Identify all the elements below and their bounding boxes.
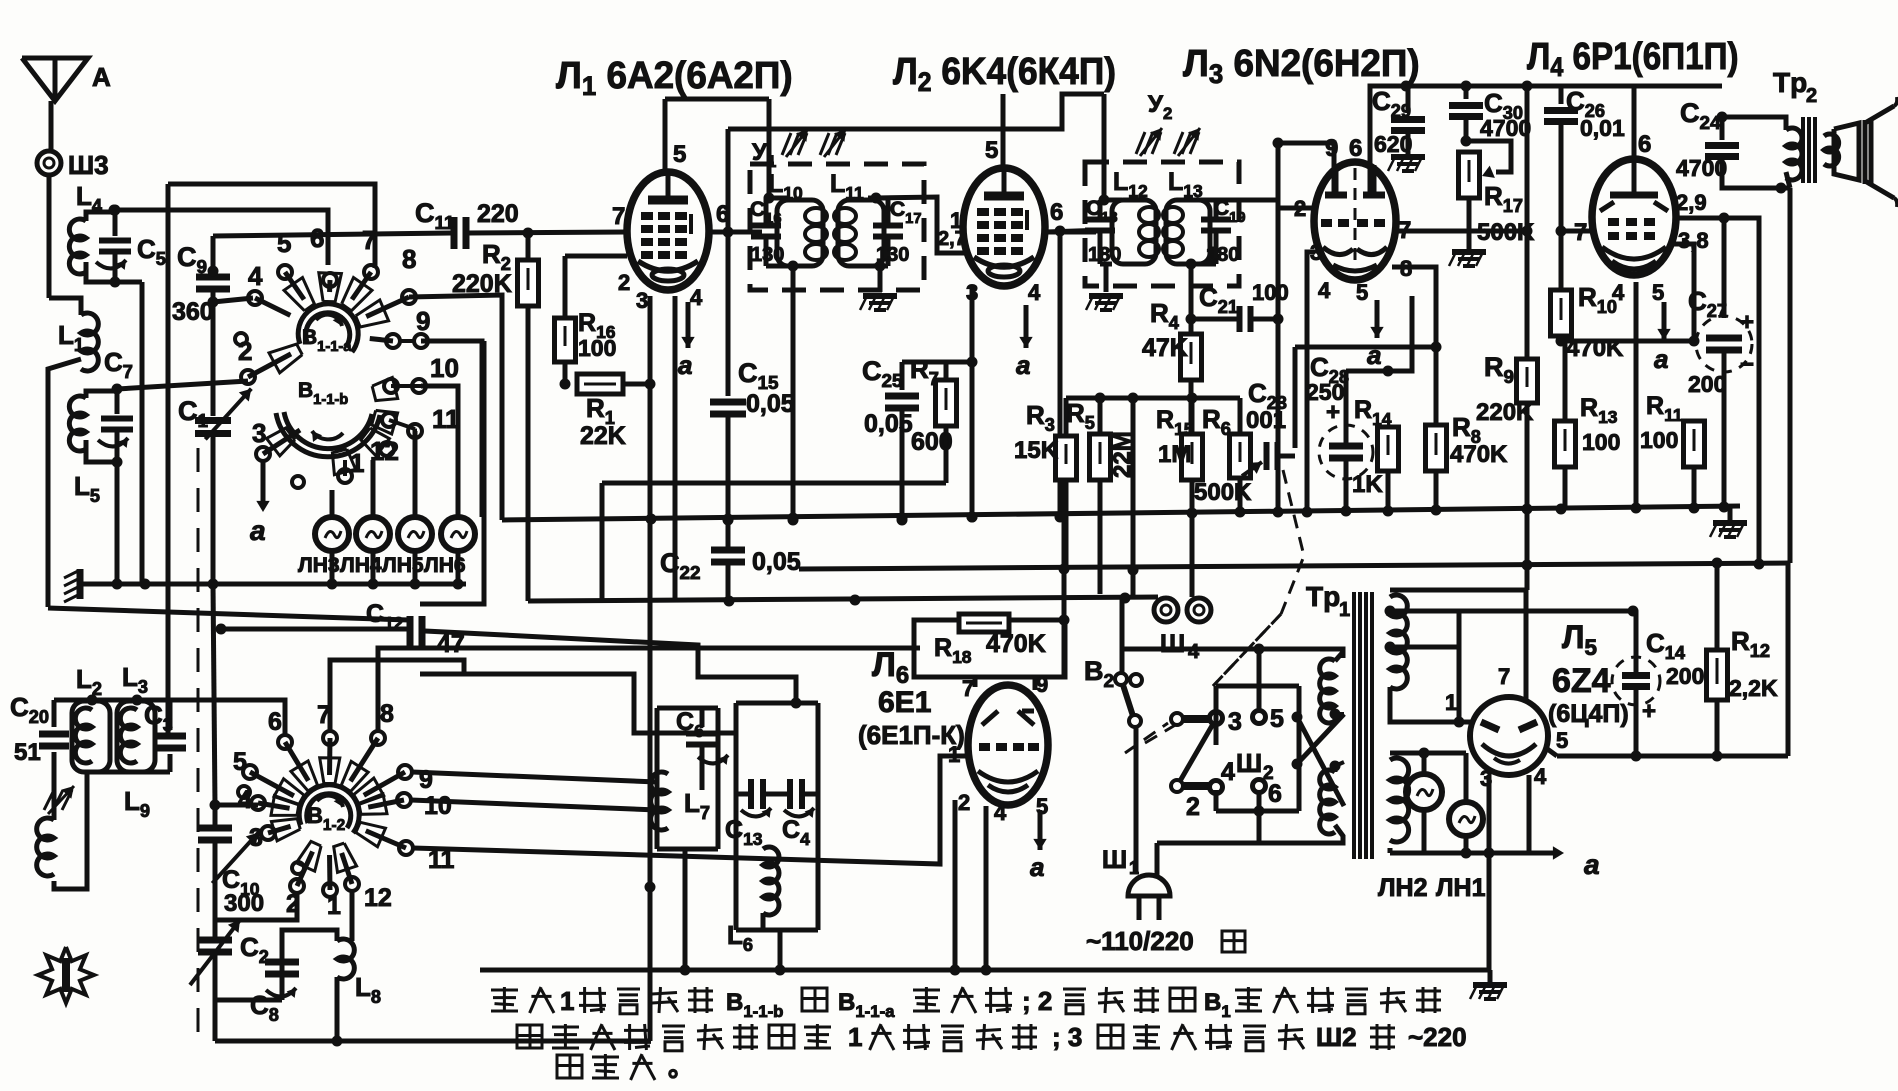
svg-text:470K: 470K: [986, 630, 1046, 658]
svg-text:~110/220: ~110/220: [1086, 926, 1194, 956]
svg-text:4: 4: [1028, 280, 1041, 305]
svg-text:a: a: [1016, 350, 1030, 380]
svg-text:Ш: Ш: [1102, 846, 1127, 874]
svg-text:100: 100: [1640, 427, 1678, 453]
svg-text:Ш: Ш: [1160, 630, 1185, 658]
svg-text:−: −: [1740, 351, 1754, 378]
svg-text:10: 10: [424, 792, 452, 820]
svg-text:8: 8: [402, 244, 416, 274]
svg-text:300: 300: [224, 890, 264, 917]
svg-text:0,05: 0,05: [864, 410, 913, 438]
svg-text:a: a: [678, 350, 692, 380]
svg-text:a: a: [1584, 849, 1600, 880]
svg-text:ЛН2: ЛН2: [1378, 874, 1428, 902]
svg-text:7: 7: [612, 203, 625, 230]
svg-text:+: +: [1740, 309, 1754, 336]
svg-text:47: 47: [437, 630, 465, 658]
svg-text:ЛН1: ЛН1: [1436, 874, 1486, 902]
svg-text:620: 620: [1374, 131, 1412, 157]
svg-text:10: 10: [430, 353, 459, 383]
svg-text:4: 4: [1534, 764, 1547, 789]
svg-text:; 2: ; 2: [1022, 986, 1052, 1016]
svg-text:51: 51: [14, 739, 41, 766]
svg-text:180: 180: [1088, 244, 1121, 266]
svg-text:a: a: [1030, 852, 1044, 882]
svg-text:~220: ~220: [1408, 1022, 1467, 1052]
svg-text:4: 4: [690, 285, 703, 310]
svg-text:1: 1: [950, 208, 962, 233]
svg-text:15K: 15K: [1014, 437, 1059, 464]
svg-text:6: 6: [1268, 780, 1282, 808]
svg-text:22K: 22K: [580, 422, 626, 450]
svg-text:5: 5: [1356, 280, 1368, 305]
svg-text:1: 1: [1445, 690, 1457, 715]
svg-text:9: 9: [416, 306, 430, 336]
svg-text:9: 9: [1036, 672, 1048, 697]
svg-text:470K: 470K: [1450, 441, 1508, 468]
svg-text:2: 2: [1806, 85, 1817, 107]
svg-text:ЛН3: ЛН3: [298, 554, 340, 577]
svg-text:2,2K: 2,2K: [1729, 675, 1778, 701]
svg-text:0,01: 0,01: [1580, 115, 1625, 141]
svg-text:7: 7: [362, 225, 376, 255]
svg-text:a: a: [250, 515, 266, 546]
svg-text:。: 。: [668, 1052, 694, 1082]
svg-text:130: 130: [751, 244, 784, 266]
svg-text:ЛН4: ЛН4: [340, 554, 382, 577]
svg-text:0,05: 0,05: [746, 390, 795, 418]
svg-text:1: 1: [327, 892, 341, 920]
svg-text:5: 5: [1556, 728, 1568, 753]
svg-text:6Z4: 6Z4: [1552, 662, 1611, 700]
svg-text:5: 5: [277, 228, 291, 258]
svg-text:A: A: [92, 62, 111, 92]
svg-text:5: 5: [673, 141, 686, 168]
svg-text:4700: 4700: [1480, 115, 1531, 141]
svg-text:Ш3: Ш3: [68, 150, 109, 180]
svg-text:360: 360: [172, 298, 214, 326]
svg-text:6: 6: [1638, 131, 1651, 158]
svg-text:7: 7: [962, 676, 974, 701]
svg-text:200: 200: [1666, 663, 1704, 689]
svg-text:a: a: [1654, 344, 1668, 374]
svg-text:2: 2: [618, 270, 630, 295]
svg-text:1: 1: [560, 986, 574, 1016]
svg-text:5: 5: [233, 748, 247, 776]
svg-text:47K: 47K: [1142, 334, 1188, 362]
svg-text:5: 5: [1270, 705, 1284, 733]
svg-text:2: 2: [1186, 793, 1200, 821]
svg-text:7: 7: [1574, 219, 1587, 246]
svg-text:; 3: ; 3: [1052, 1022, 1082, 1052]
svg-text:1: 1: [848, 1022, 862, 1052]
svg-text:(6Ц4П): (6Ц4П): [1548, 700, 1629, 728]
svg-text:4: 4: [1318, 278, 1331, 303]
svg-text:100: 100: [1252, 280, 1289, 305]
svg-text:4: 4: [248, 261, 263, 291]
svg-text:4700: 4700: [1676, 155, 1727, 181]
svg-text:6: 6: [1349, 135, 1362, 162]
svg-text:11: 11: [432, 404, 460, 434]
svg-text:250: 250: [1306, 379, 1344, 405]
svg-text:1K: 1K: [1352, 471, 1383, 498]
svg-text:6E1: 6E1: [878, 686, 931, 719]
svg-text:6: 6: [716, 201, 729, 228]
svg-text:Ш: Ш: [1236, 748, 1262, 778]
svg-text:Tp: Tp: [1773, 67, 1807, 98]
svg-text:ЛН5: ЛН5: [382, 554, 424, 577]
svg-text:3: 3: [636, 288, 648, 313]
svg-text:4: 4: [1188, 641, 1200, 663]
svg-text:Tp: Tp: [1306, 581, 1340, 612]
svg-text:8: 8: [380, 700, 394, 728]
svg-text:100: 100: [578, 335, 616, 361]
svg-text:7: 7: [1498, 664, 1510, 689]
svg-text:100: 100: [1582, 429, 1620, 455]
svg-text:2: 2: [958, 790, 970, 815]
svg-text:1: 1: [1129, 858, 1139, 878]
svg-text:1: 1: [948, 742, 960, 767]
svg-text:6: 6: [1050, 199, 1063, 226]
svg-text:4: 4: [1221, 758, 1235, 786]
svg-text:5: 5: [985, 137, 998, 164]
svg-text:1: 1: [1339, 599, 1350, 621]
svg-text:6: 6: [268, 708, 282, 736]
svg-text:+: +: [1642, 698, 1656, 725]
svg-text:Ш2: Ш2: [1316, 1022, 1357, 1052]
svg-text:3: 3: [1228, 708, 1242, 736]
svg-text:180: 180: [1206, 244, 1239, 266]
svg-text:2,9: 2,9: [1676, 190, 1707, 215]
svg-text:0,05: 0,05: [752, 548, 801, 576]
svg-text:500K: 500K: [1194, 479, 1252, 506]
svg-text:1M: 1M: [1158, 441, 1191, 468]
svg-text:3: 3: [252, 418, 266, 448]
svg-text:200: 200: [1688, 371, 1726, 397]
svg-text:6: 6: [310, 223, 324, 253]
svg-text:1: 1: [350, 448, 364, 478]
svg-text:4: 4: [994, 800, 1007, 825]
svg-text:5: 5: [1652, 280, 1664, 305]
svg-text:12: 12: [364, 884, 392, 912]
svg-text:600: 600: [911, 428, 953, 456]
svg-text:ЛН6: ЛН6: [424, 554, 466, 577]
svg-text:2: 2: [1263, 763, 1274, 784]
svg-text:220K: 220K: [1476, 399, 1534, 426]
svg-text:220: 220: [477, 200, 519, 228]
svg-text:130: 130: [876, 244, 909, 266]
svg-text:12: 12: [370, 436, 399, 466]
